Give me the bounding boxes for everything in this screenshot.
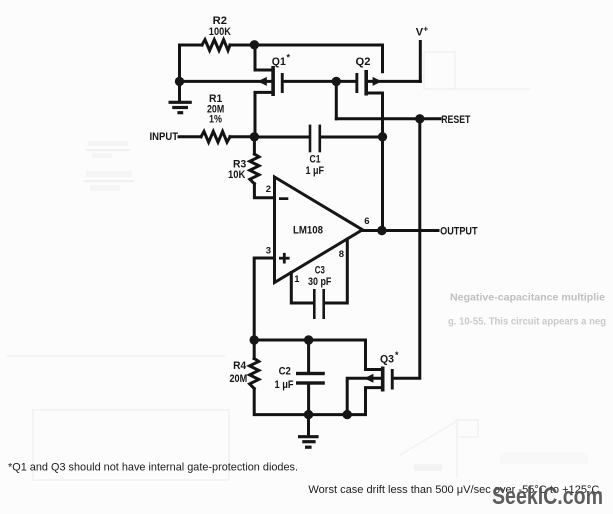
wire: R4 top lead (253, 340, 256, 359)
transistor Q3 (364, 367, 393, 392)
svg-text:Q1: Q1 (272, 56, 286, 68)
svg-text:2: 2 (266, 184, 271, 195)
wire: V+ lead (419, 42, 422, 82)
svg-text:100K: 100K (209, 26, 231, 38)
wire: R4 bottom to ground rail (254, 388, 381, 415)
svg-text:1 μF: 1 μF (275, 379, 294, 391)
wire: lower node rail y340 (254, 340, 381, 370)
wire: R1 to input node (230, 135, 254, 138)
svg-text:20M: 20M (230, 373, 248, 385)
node: RESET tee (415, 114, 424, 123)
faint reverse-side bleed-through artifacts (7, 52, 530, 480)
svg-text:1 μF: 1 μF (306, 165, 325, 177)
svg-text:6: 6 (364, 216, 369, 227)
svg-text:C1: C1 (310, 154, 321, 166)
svg-text:1%: 1% (209, 114, 222, 126)
node: C1 right / Q2 source (378, 132, 387, 141)
svg-text:Q3: Q3 (380, 354, 394, 366)
wire: R3 top lead (253, 137, 256, 154)
wire: left vertical from R2 to ground node (178, 45, 181, 81)
capacitor C1 plates (309, 125, 321, 153)
node: C2 top (304, 335, 313, 344)
wire: Q2 source lead (368, 93, 383, 137)
node: R2 right / Q1 drain (250, 40, 259, 49)
wire: ground stub G1 (178, 81, 181, 100)
svg-text:10K: 10K (228, 169, 245, 181)
wire: op-amp pin1 lead to C3 (291, 273, 313, 304)
ground (top-left) (169, 102, 192, 112)
svg-text:+: + (423, 24, 428, 34)
wire: reset node down to Q3 gate (394, 119, 420, 379)
wire: Q3 substrate to ground rail (347, 378, 381, 414)
svg-text:1: 1 (294, 274, 300, 285)
wire: C2 top lead (307, 340, 310, 372)
svg-text:C3: C3 (315, 265, 325, 277)
op-amp plus input symbol (279, 253, 290, 264)
wire: R3 bottom to op-amp pin 2 (254, 184, 274, 198)
wire: top rail R2 right to Q2 drain corner (230, 45, 383, 72)
wire: op-amp pin8 lead to C3 (325, 239, 347, 303)
svg-text:R4: R4 (233, 360, 247, 372)
wire: Q1 substrate line (180, 80, 272, 83)
svg-text:g. 10-55. This circuit appe: g. 10-55. This circuit appears a neg (448, 317, 606, 328)
wire: INPUT lead (179, 135, 201, 138)
wire: input node to C1 left plate (254, 136, 308, 139)
svg-text:LM108: LM108 (293, 225, 323, 237)
node: R2 left / Q1 substrate / ground (175, 77, 184, 86)
node: input summing (250, 132, 259, 141)
svg-text:Negative-capacitance multiplie: Negative-capacitance multiplie (450, 291, 605, 303)
svg-text:SeekIC.com: SeekIC.com (492, 483, 603, 510)
ground (bottom) (298, 437, 319, 448)
svg-text:R2: R2 (213, 15, 227, 27)
node: C2 bottom / ground (304, 410, 313, 419)
wire: reset gate vertical (335, 81, 338, 118)
wire: Q1 drain lead (255, 45, 271, 70)
wire: op-amp output to OUTPUT label (363, 229, 439, 232)
capacitor C2 plates (296, 372, 325, 385)
node: pin3 / R4 (250, 335, 259, 344)
wire: Q2 gate lead (336, 80, 355, 83)
node: Q3 substrate / ground rail (343, 410, 352, 419)
op-amp U1 LM108 (275, 177, 363, 283)
wire: C2 bottom lead (307, 385, 310, 415)
capacitor C3 plates (313, 289, 325, 319)
node: output (377, 226, 386, 235)
svg-text:*Q1 and Q3 should not have int: *Q1 and Q3 should not have internal gate… (8, 462, 298, 474)
svg-text:*: * (395, 350, 399, 360)
resistor R2 (202, 40, 230, 51)
wire: C1 right plate to Q2 source node (321, 136, 383, 139)
wire: Q2 substrate to V+ corner (368, 80, 420, 83)
node: Q1 gate / Q2 gate / reset (332, 77, 341, 86)
resistor R4 (250, 359, 259, 389)
resistor R1 (201, 131, 230, 142)
transistor Q1 (258, 66, 284, 96)
svg-text:*: * (287, 53, 291, 63)
svg-text:3: 3 (266, 245, 271, 256)
svg-text:8: 8 (339, 249, 344, 260)
svg-text:30 pF: 30 pF (308, 276, 332, 288)
svg-text:C2: C2 (279, 366, 291, 378)
svg-text:INPUT: INPUT (150, 131, 179, 143)
svg-text:OUTPUT: OUTPUT (440, 226, 478, 238)
wire: ground stub G2 (307, 415, 310, 435)
transistor Q2 (355, 70, 381, 96)
wire: op-amp pin3 lead (254, 258, 274, 340)
op-amp minus input symbol (279, 197, 288, 200)
wire: RESET rail (336, 117, 440, 120)
svg-text:Q2: Q2 (356, 56, 371, 68)
wire: Q1 gate lead to reset net (284, 80, 337, 83)
svg-text:RESET: RESET (441, 114, 470, 126)
wire: Q2 source node down to output node (381, 137, 384, 231)
resistor R3 (250, 154, 259, 184)
wire: Q1 source lead (255, 92, 271, 136)
wire: top rail R2 left lead (180, 44, 203, 47)
